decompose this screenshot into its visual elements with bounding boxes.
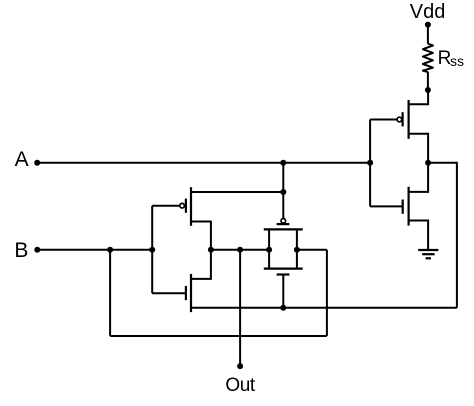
junction B / bottom feedback branch (107, 247, 113, 253)
junction pass-pmos source / TG top gate (280, 189, 286, 195)
svg-text:Vdd: Vdd (410, 1, 446, 23)
transmission gate U1 pmos gate bubble (281, 219, 286, 224)
transistor Q2 nmos pass gate bar (185, 286, 187, 300)
wire down to TG pmos gate bubble (282, 192, 284, 219)
node Vdd terminal dot (425, 22, 431, 28)
wire nmos Q2 gate horizontal (152, 292, 186, 294)
transistor Q3 channel bar (408, 100, 410, 139)
wire out node horizontal (211, 249, 269, 251)
wire left branch vertical down (109, 250, 111, 336)
transistor Q1 channel bar (190, 187, 192, 226)
transistor Q3 pmos inverter source arm (409, 90, 429, 104)
transistor Q2 source arm / Abar wire (191, 307, 457, 309)
junction out branch (237, 247, 243, 253)
junction A / pass-pmos source branch (280, 160, 286, 166)
junction pass pair drains / out node (208, 247, 214, 253)
transistor Q3 drain arm (409, 134, 429, 163)
ground symbol (418, 250, 438, 258)
transistor Q3 gate bar (402, 112, 404, 126)
wire A horizontal (37, 162, 370, 164)
transmission gate U1 right terminal bar (296, 229, 298, 268)
wire right branch vertical up to TG right terminal (326, 250, 328, 336)
wire pass pair gate vertical (151, 206, 153, 294)
svg-text:Out: Out (225, 375, 256, 396)
node B terminal dot (34, 247, 40, 253)
transistor Q4 gate bar (402, 200, 404, 214)
transistor Q1 pmos pass (gate bubble) (180, 203, 185, 208)
transistor Q1 drain arm (191, 222, 211, 250)
junction TG right terminal (294, 247, 300, 253)
wire Vdd to resistor (427, 25, 429, 44)
junction inverter output (425, 160, 431, 166)
transistor Q3 gate bubble (397, 117, 402, 122)
wire Out vertical (239, 250, 241, 366)
wire TG nmos gate down to Abar wire (282, 275, 284, 308)
wire Q3 gate horizontal (370, 119, 397, 121)
junction TG nmos gate / Abar wire (280, 305, 286, 311)
resistor Rss zigzag (423, 44, 433, 72)
transmission gate U1 top channel bar (264, 228, 303, 230)
transmission gate U1 bottom gate bar (277, 273, 290, 275)
transmission gate U1 top gate bar (277, 223, 290, 225)
transistor Q2 channel bar (190, 274, 192, 312)
svg-text:B: B (14, 239, 28, 262)
transistor Q2 drain arm (191, 250, 211, 279)
wire inverter gate vertical (369, 120, 371, 207)
wire pmos Q1 gate horizontal (152, 205, 180, 207)
transistor Q4 nmos inverter gate wire (370, 205, 403, 207)
svg-text:A: A (15, 148, 29, 171)
junction TG left terminal (266, 247, 272, 253)
svg-text:Rss: Rss (438, 48, 464, 69)
transistor Q1 source arm to node A branch (191, 191, 283, 193)
transmission gate U1 bottom channel bar (264, 268, 303, 270)
wire TG right terminal horizontal (297, 249, 327, 251)
junction Rss / inverter pmos source (425, 87, 431, 93)
wire resistor to pmos source node (427, 72, 429, 90)
wire B horizontal (37, 249, 152, 251)
wire inverter output to Abar branch (428, 163, 457, 308)
transistor Q4 channel bar (408, 187, 410, 226)
transistor Q4 drain arm (409, 163, 429, 192)
node A terminal dot (34, 160, 40, 166)
wire from A line down to pass-pmos source node (282, 163, 284, 192)
junction A line / inverter gates (367, 160, 373, 166)
junction B / pass pair gates (149, 247, 155, 253)
transistor Q1 gate bar (185, 199, 187, 213)
wire bottom horizontal (110, 335, 327, 337)
node Out terminal dot (237, 363, 243, 369)
transistor Q4 source arm (409, 221, 429, 250)
transmission gate U1 left terminal bar (268, 229, 270, 268)
